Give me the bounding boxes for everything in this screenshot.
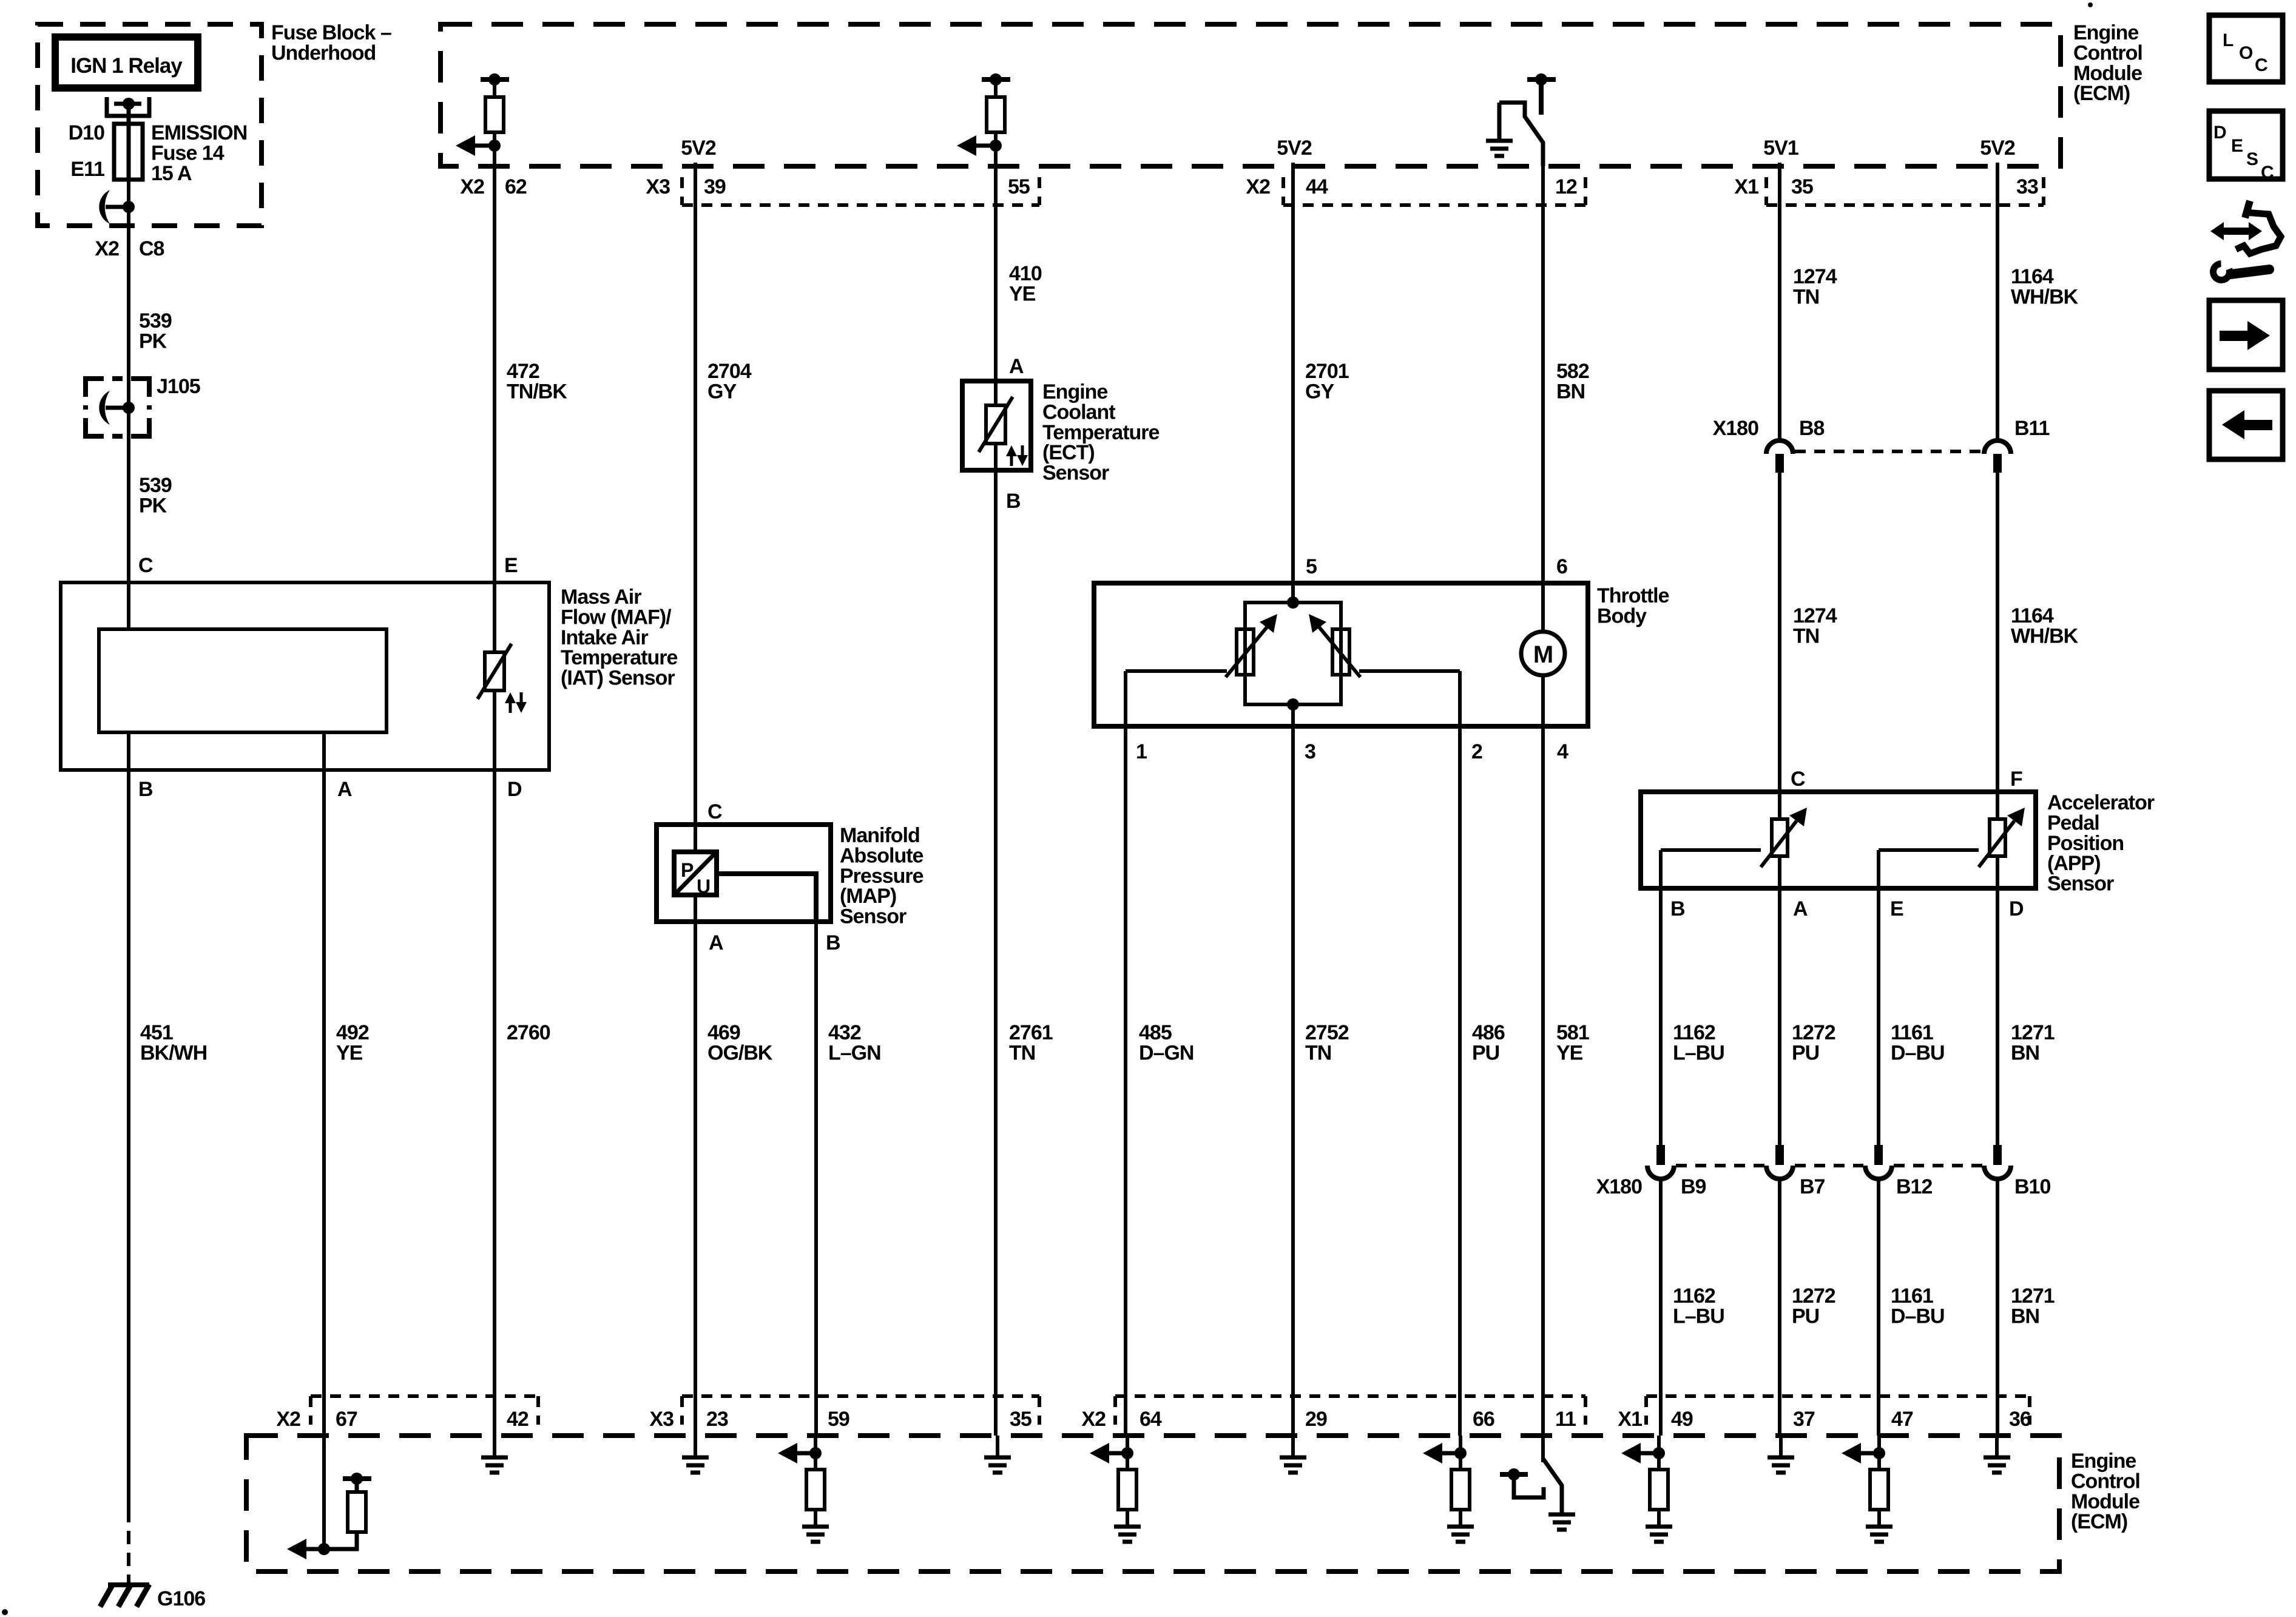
svg-text:X2: X2 (1081, 1408, 1106, 1431)
svg-text:D–GN: D–GN (1139, 1041, 1194, 1064)
svg-text:IGN 1 Relay: IGN 1 Relay (70, 54, 183, 78)
svg-text:B11: B11 (2014, 417, 2050, 440)
svg-text:5: 5 (1306, 555, 1317, 578)
svg-text:GY: GY (707, 380, 737, 403)
svg-text:D: D (507, 778, 522, 801)
svg-text:OG/BK: OG/BK (707, 1041, 773, 1064)
svg-text:410: 410 (1009, 262, 1042, 285)
svg-text:485: 485 (1139, 1021, 1172, 1044)
svg-text:D: D (2213, 123, 2226, 143)
svg-text:B10: B10 (2014, 1175, 2050, 1198)
svg-text:E: E (1890, 897, 1903, 920)
svg-text:X2: X2 (95, 237, 119, 260)
svg-text:Throttle: Throttle (1597, 584, 1669, 607)
svg-text:PK: PK (139, 329, 167, 353)
svg-text:29: 29 (1305, 1408, 1327, 1431)
svg-text:Sensor: Sensor (840, 905, 907, 928)
svg-text:J105: J105 (157, 375, 200, 398)
svg-text:D10: D10 (69, 121, 104, 144)
svg-text:1271: 1271 (2011, 1021, 2055, 1044)
svg-text:PK: PK (139, 494, 167, 517)
svg-text:TN: TN (1793, 285, 1819, 308)
svg-text:E11: E11 (70, 158, 104, 181)
svg-text:(ECM): (ECM) (2071, 1510, 2127, 1533)
svg-text:B8: B8 (1799, 417, 1825, 440)
svg-text:G106: G106 (157, 1587, 205, 1610)
svg-text:4: 4 (1557, 740, 1568, 763)
svg-text:(APP): (APP) (2047, 852, 2101, 875)
svg-text:36: 36 (2009, 1408, 2031, 1431)
svg-text:Fuse Block –: Fuse Block – (271, 21, 391, 44)
svg-text:F: F (2010, 768, 2022, 791)
svg-text:D: D (2009, 897, 2024, 920)
svg-text:1274: 1274 (1793, 265, 1837, 288)
svg-text:582: 582 (1556, 360, 1589, 383)
svg-text:L–BU: L–BU (1673, 1305, 1724, 1328)
svg-text:B9: B9 (1681, 1175, 1706, 1198)
svg-text:Pressure: Pressure (840, 865, 923, 888)
svg-text:A: A (709, 931, 723, 954)
svg-text:Sensor: Sensor (2047, 873, 2114, 896)
svg-text:A: A (1009, 355, 1024, 378)
svg-text:D–BU: D–BU (1891, 1041, 1945, 1064)
svg-text:35: 35 (1791, 175, 1813, 198)
svg-text:64: 64 (1140, 1408, 1162, 1431)
svg-text:Body: Body (1597, 604, 1647, 627)
svg-text:X3: X3 (649, 1408, 674, 1431)
svg-text:M: M (1533, 641, 1553, 668)
svg-text:P: P (681, 859, 694, 881)
svg-text:1272: 1272 (1792, 1021, 1835, 1044)
svg-text:2701: 2701 (1305, 360, 1349, 383)
svg-text:S: S (2246, 149, 2258, 169)
svg-text:33: 33 (2016, 175, 2038, 198)
svg-text:B12: B12 (1896, 1175, 1932, 1198)
svg-text:Flow (MAF)/: Flow (MAF)/ (561, 606, 672, 629)
svg-text:5V1: 5V1 (1763, 137, 1798, 160)
svg-text:D–BU: D–BU (1891, 1305, 1945, 1328)
svg-text:Module: Module (2073, 62, 2142, 85)
svg-text:X3: X3 (646, 175, 670, 198)
svg-text:BN: BN (1556, 380, 1585, 403)
svg-text:67: 67 (336, 1408, 357, 1431)
svg-text:486: 486 (1472, 1021, 1505, 1044)
svg-text:(MAP): (MAP) (840, 885, 896, 908)
svg-text:2704: 2704 (707, 360, 752, 383)
svg-text:C: C (1791, 768, 1805, 791)
svg-text:Manifold: Manifold (840, 824, 920, 847)
svg-text:C8: C8 (139, 237, 164, 260)
svg-text:1: 1 (1136, 740, 1147, 763)
svg-text:47: 47 (1891, 1408, 1913, 1431)
svg-text:L–GN: L–GN (828, 1041, 881, 1064)
svg-text:5V2: 5V2 (681, 137, 716, 160)
svg-text:539: 539 (139, 309, 172, 333)
svg-text:1162: 1162 (1673, 1284, 1715, 1308)
svg-text:EMISSION: EMISSION (151, 121, 247, 144)
svg-text:Engine: Engine (1042, 380, 1107, 403)
svg-text:62: 62 (505, 175, 527, 198)
svg-text:539: 539 (139, 474, 172, 497)
svg-text:C: C (2255, 55, 2267, 75)
svg-text:A: A (337, 778, 352, 801)
svg-text:X180: X180 (1713, 417, 1758, 440)
svg-text:YE: YE (1556, 1041, 1583, 1064)
svg-text:Engine: Engine (2073, 21, 2138, 44)
svg-text:Pedal: Pedal (2047, 811, 2099, 834)
svg-text:59: 59 (828, 1408, 849, 1431)
svg-text:TN: TN (1793, 624, 1819, 647)
svg-text:TN: TN (1009, 1041, 1035, 1064)
svg-text:1164: 1164 (2011, 265, 2054, 288)
svg-text:(ECM): (ECM) (2073, 82, 2130, 105)
svg-text:Position: Position (2047, 832, 2124, 855)
svg-text:2761: 2761 (1009, 1021, 1053, 1044)
svg-text:Module: Module (2071, 1490, 2139, 1513)
svg-text:Accelerator: Accelerator (2047, 791, 2155, 814)
svg-text:GY: GY (1305, 380, 1334, 403)
svg-text:35: 35 (1010, 1408, 1032, 1431)
svg-text:Absolute: Absolute (840, 844, 923, 867)
svg-text:B: B (138, 778, 153, 801)
svg-text:TN: TN (1305, 1041, 1331, 1064)
svg-text:B7: B7 (1800, 1175, 1825, 1198)
svg-text:BN: BN (2011, 1305, 2039, 1328)
svg-text:X1: X1 (1618, 1408, 1642, 1431)
svg-text:L: L (2223, 30, 2234, 50)
svg-text:42: 42 (507, 1408, 528, 1431)
svg-text:Coolant: Coolant (1042, 400, 1115, 424)
svg-text:3: 3 (1305, 740, 1315, 763)
svg-text:L–BU: L–BU (1673, 1041, 1724, 1064)
svg-text:39: 39 (704, 175, 726, 198)
svg-text:BN: BN (2011, 1041, 2039, 1064)
svg-text:23: 23 (706, 1408, 728, 1431)
svg-text:C: C (138, 554, 153, 577)
svg-text:B: B (1006, 490, 1021, 513)
svg-text:YE: YE (336, 1041, 363, 1064)
svg-text:C: C (707, 800, 722, 823)
svg-text:49: 49 (1671, 1408, 1693, 1431)
svg-text:6: 6 (1556, 555, 1567, 578)
svg-text:66: 66 (1473, 1408, 1494, 1431)
svg-text:X180: X180 (1596, 1175, 1642, 1198)
svg-text:Fuse 14: Fuse 14 (151, 141, 225, 164)
svg-text:1164: 1164 (2011, 604, 2054, 627)
svg-text:5V2: 5V2 (1980, 137, 2015, 160)
svg-text:PU: PU (1472, 1041, 1499, 1064)
svg-text:1161: 1161 (1891, 1021, 1933, 1044)
svg-text:(IAT) Sensor: (IAT) Sensor (561, 667, 675, 690)
svg-text:469: 469 (707, 1021, 740, 1044)
svg-text:BK/WH: BK/WH (140, 1041, 207, 1064)
svg-text:15 A: 15 A (151, 162, 192, 185)
svg-text:X2: X2 (276, 1408, 300, 1431)
svg-text:1161: 1161 (1891, 1284, 1933, 1308)
svg-text:X1: X1 (1734, 175, 1758, 198)
svg-text:WH/BK: WH/BK (2011, 624, 2079, 647)
svg-text:12: 12 (1555, 175, 1577, 198)
svg-text:E: E (2231, 136, 2243, 156)
svg-text:Sensor: Sensor (1042, 462, 1109, 485)
svg-text:Underhood: Underhood (271, 41, 376, 64)
svg-text:Temperature: Temperature (561, 646, 678, 669)
svg-text:55: 55 (1008, 175, 1030, 198)
svg-text:B: B (1670, 897, 1685, 920)
svg-text:432: 432 (828, 1021, 861, 1044)
svg-text:11: 11 (1555, 1408, 1576, 1431)
svg-text:451: 451 (140, 1021, 173, 1044)
svg-text:1162: 1162 (1673, 1021, 1715, 1044)
svg-text:44: 44 (1306, 175, 1328, 198)
svg-text:TN/BK: TN/BK (507, 380, 567, 403)
svg-text:Intake Air: Intake Air (561, 626, 648, 649)
svg-text:E: E (504, 554, 518, 577)
svg-text:5V2: 5V2 (1277, 137, 1312, 160)
svg-text:X2: X2 (1246, 175, 1270, 198)
svg-text:YE: YE (1009, 282, 1036, 305)
svg-text:C: C (2261, 163, 2274, 183)
svg-text:PU: PU (1792, 1041, 1819, 1064)
svg-text:Control: Control (2073, 41, 2142, 64)
svg-text:37: 37 (1793, 1408, 1815, 1431)
svg-text:Temperature: Temperature (1042, 421, 1160, 444)
svg-text:B: B (826, 931, 840, 954)
svg-text:O: O (2239, 43, 2253, 63)
svg-text:472: 472 (507, 360, 539, 383)
svg-text:492: 492 (336, 1021, 369, 1044)
svg-text:(ECT): (ECT) (1042, 441, 1095, 464)
svg-text:Mass Air: Mass Air (561, 586, 641, 609)
svg-text:Control: Control (2071, 1470, 2140, 1493)
svg-text:Engine: Engine (2071, 1450, 2136, 1473)
svg-text:PU: PU (1792, 1305, 1819, 1328)
svg-text:A: A (1793, 897, 1808, 920)
svg-text:1272: 1272 (1792, 1284, 1835, 1308)
svg-text:2752: 2752 (1305, 1021, 1349, 1044)
svg-text:1271: 1271 (2011, 1284, 2055, 1308)
svg-text:2760: 2760 (507, 1021, 550, 1044)
svg-text:1274: 1274 (1793, 604, 1837, 627)
svg-text:X2: X2 (460, 175, 484, 198)
svg-text:581: 581 (1556, 1021, 1589, 1044)
svg-text:WH/BK: WH/BK (2011, 285, 2079, 308)
svg-text:2: 2 (1471, 740, 1482, 763)
svg-text:U: U (697, 876, 710, 897)
